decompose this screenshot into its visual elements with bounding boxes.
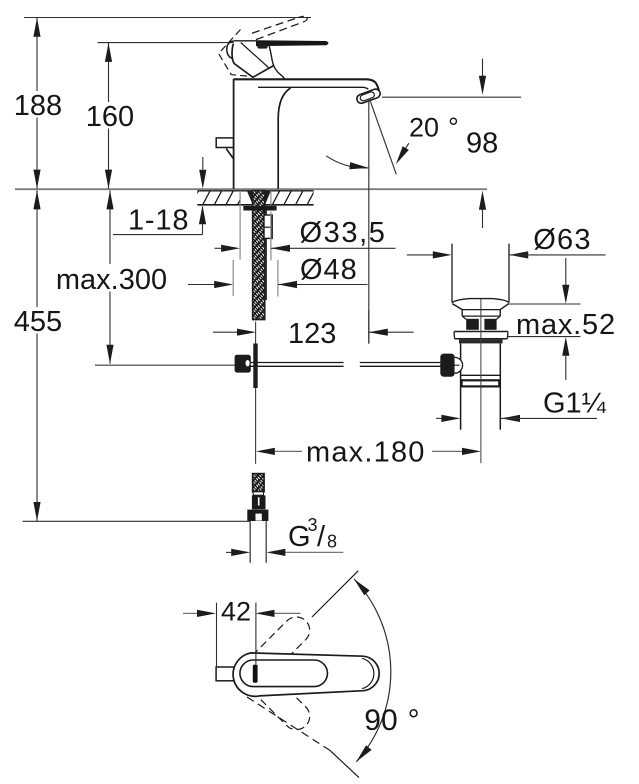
svg-text:455: 455 (14, 306, 62, 338)
drain lower body sides (461, 343, 501, 429)
dimension text G1-1/4 (543, 388, 607, 420)
svg-text:8: 8 (327, 532, 337, 552)
lever pivot shadow (257, 43, 267, 49)
lever reference line (98, 42, 234, 44)
dimension max52 lines+arrows (508, 258, 580, 380)
horizontal pop-up rod tube (235, 363, 441, 367)
svg-text:98: 98 (466, 128, 498, 160)
dimension 455 line+arrows (33, 190, 40, 521)
svg-text:42: 42 (221, 597, 251, 627)
upper angle leg (312, 571, 358, 617)
dashed raised lever outline (252, 16, 307, 39)
lever bar thin front part (234, 40, 257, 42)
20deg leader arrow (396, 143, 409, 164)
dimension G3/8 arrows (226, 549, 343, 556)
mounting flange bar (243, 206, 276, 211)
pop-up rod knob on body (216, 138, 233, 159)
dimension diam63 lines+arrows (407, 251, 606, 258)
dimension 160 line+arrows (105, 43, 112, 189)
svg-text:max.300: max.300 (56, 264, 167, 296)
handle knob outline (232, 44, 274, 78)
90deg arc with arrows (354, 579, 391, 762)
dimension text 90deg (364, 704, 419, 737)
faucet body right profile curve (278, 88, 290, 189)
dimension text max52 (516, 309, 616, 341)
spout underside line (258, 87, 368, 89)
aerator inner outline (359, 91, 375, 102)
dimension text 1-18 (128, 205, 189, 237)
svg-text:3: 3 (308, 515, 318, 535)
455 bottom reference line (23, 520, 251, 522)
svg-text:max.180: max.180 (306, 437, 426, 469)
mounting hole left wedge (247, 191, 253, 205)
threaded shank (cross-hatched) (253, 191, 265, 320)
dimension 42 lines+arrows (183, 603, 301, 668)
svg-text:Ø48: Ø48 (300, 254, 358, 286)
dimension text diam63 (533, 224, 591, 256)
drain coupling ring (461, 375, 501, 386)
drain slotted ring (466, 319, 496, 330)
20deg arc with arrow (326, 156, 368, 169)
countertop surface line (15, 188, 487, 190)
hose G3/8 connector (247, 474, 268, 521)
faucet body left edge (233, 79, 235, 189)
pop-up tab (top view) (216, 667, 234, 681)
lever bar (horizontal position) (256, 40, 328, 46)
handle inner capsule (top view) (240, 660, 328, 687)
drain ball-rod knob (440, 354, 462, 377)
svg-text:20 °: 20 ° (409, 113, 459, 143)
countertop hatch band (191, 191, 315, 205)
dimension text 20deg (409, 113, 459, 143)
drain centerline (480, 299, 482, 463)
dimension 188 line+arrows (33, 18, 40, 189)
handle neck curve (269, 44, 285, 79)
svg-text:max.52: max.52 (516, 309, 616, 341)
dimension 98 lines+arrows (382, 59, 521, 229)
dimension text max.300 (56, 264, 167, 296)
pop-up vertical rod (253, 344, 257, 389)
dimension max180 arrows (256, 448, 481, 455)
dashed lower angle leg (247, 697, 330, 750)
dimension 123 lines+arrows (213, 310, 414, 344)
handle knob inner diagonal (241, 43, 269, 69)
svg-text:90 °: 90 ° (364, 704, 419, 737)
solid end of lower angle leg (330, 750, 359, 777)
water stream vertical line (368, 100, 370, 344)
dimension text diam48 (300, 254, 358, 286)
svg-text:G1¼: G1¼ (543, 388, 607, 420)
dimension text G3/8 (288, 515, 337, 553)
drain dome top (452, 299, 509, 303)
svg-text:1-18: 1-18 (128, 205, 189, 237)
faucet centerline to hose (255, 388, 257, 464)
drain flange disc (454, 332, 508, 344)
lever front cap (227, 41, 234, 59)
svg-text:123: 123 (288, 318, 336, 350)
svg-text:188: 188 (14, 90, 62, 122)
dimension text 188 (14, 90, 62, 122)
extension line for max.300 bottom (95, 364, 235, 366)
dashed handle rotated down (top view) (234, 654, 315, 735)
dimension text 98 (466, 128, 498, 160)
handle outer outline (top view) (233, 653, 379, 696)
dimension max.300 line+arrows (106, 190, 113, 364)
dimension text 123 (288, 318, 336, 350)
mounting hole right wedge (265, 191, 271, 205)
dimension G1-1/4 lines+arrows (436, 415, 597, 422)
dashed rotated handle knob outline (219, 30, 251, 77)
drain neck bevels (452, 304, 509, 320)
hose tube below nut (250, 521, 266, 563)
dashed handle rotated up (top view) (234, 611, 315, 692)
dimension text 42 (221, 597, 251, 627)
svg-text:/: / (317, 521, 326, 553)
svg-text:Ø33,5: Ø33,5 (300, 217, 387, 249)
rod clamp screw (235, 355, 251, 373)
water stream slanted line (370, 101, 396, 174)
dimension text diam33.5 (300, 217, 387, 249)
rod guide clip on shank (264, 215, 272, 238)
svg-text:160: 160 (86, 101, 134, 133)
dimension 1-18 leader+arrows (113, 157, 206, 235)
handle marking bar (top view) (253, 665, 258, 683)
aerator outer outline (356, 88, 382, 105)
top reference line (raised lever height) (24, 17, 311, 19)
lever inner cap line (top view) (362, 658, 374, 688)
faucet body+spout top edge (234, 79, 379, 90)
pop-up rod beside shank (265, 211, 267, 301)
drain upper cylinder sides (452, 244, 509, 303)
svg-text:Ø63: Ø63 (533, 224, 591, 256)
faucet centerline below shank (255, 322, 257, 345)
dimension diam48 lines+arrows (188, 260, 368, 297)
dimension text 160 (86, 101, 134, 133)
dimension text 455 (14, 306, 62, 338)
dimension diam33.5 lines+arrows (215, 191, 396, 261)
dimension text max180 (306, 437, 426, 469)
